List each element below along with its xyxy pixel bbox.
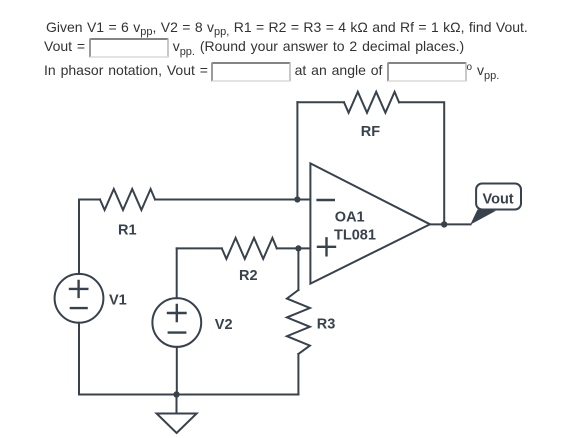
svg-text:V1: V1 [109, 293, 127, 309]
svg-text:RF: RF [361, 124, 380, 140]
input box Vout [89, 38, 169, 58]
resistor R2 [222, 238, 277, 259]
wire: R2 left lead [177, 247, 222, 249]
wire: V2 top lead up to R2 level [176, 248, 178, 298]
question line 2 continued [173, 39, 465, 54]
V2 minus sign [169, 331, 185, 333]
svg-text:TL081: TL081 [334, 228, 376, 244]
op-amp non-inverting input symbol [318, 238, 335, 255]
node: non-inverting input junction [295, 245, 301, 251]
wire: V1 bottom lead [78, 323, 80, 395]
resistor R3 [287, 290, 310, 354]
svg-text:OA1: OA1 [335, 209, 365, 225]
question line 3: degree units [467, 63, 500, 78]
wire: ground bus [79, 394, 298, 396]
input box phasor magnitude [211, 62, 291, 82]
ground [157, 414, 197, 434]
op-amp inverting input symbol [318, 199, 334, 201]
wire: R3 top lead [297, 248, 299, 290]
wire: op-amp output [431, 223, 471, 225]
wire: R2 to non-inverting input [277, 247, 311, 249]
wire: RF left lead [297, 101, 344, 103]
source V2 [152, 298, 201, 347]
wire: V2 bottom lead [176, 347, 178, 395]
V1 plus sign [70, 281, 87, 297]
wire: feedback left vertical [296, 102, 298, 199]
resistor RF [344, 92, 399, 113]
input box phasor angle [387, 62, 467, 82]
wire: ground stub [176, 395, 178, 414]
wire: R1 to inverting input [155, 199, 311, 201]
question line 3: at an angle of [295, 63, 383, 77]
svg-text:R3: R3 [317, 317, 336, 333]
wire: left branch vertical to V1 [78, 200, 80, 275]
svg-text:R1: R1 [118, 223, 137, 239]
node: ground junction [173, 391, 179, 397]
wire: R1 left lead from left branch [79, 199, 100, 201]
source V1 [55, 274, 104, 323]
question line 3 [44, 63, 208, 77]
question line 1 [46, 20, 528, 35]
resistor R1 [100, 189, 155, 210]
question line 2 [44, 39, 85, 53]
wire: RF right lead and feedback right vertical [399, 102, 444, 224]
svg-text:V2: V2 [215, 317, 233, 333]
Vout callout tail [470, 210, 496, 225]
svg-text:Vout: Vout [483, 191, 514, 207]
wire: R3 bottom lead [297, 354, 299, 395]
node: inverting input junction [294, 196, 300, 202]
V2 plus sign [168, 305, 186, 321]
node: output junction [441, 221, 447, 227]
V1 minus sign [71, 307, 87, 309]
svg-text:R2: R2 [239, 268, 258, 284]
Vout callout box [476, 184, 521, 210]
op-amp OA1 [310, 163, 430, 283]
